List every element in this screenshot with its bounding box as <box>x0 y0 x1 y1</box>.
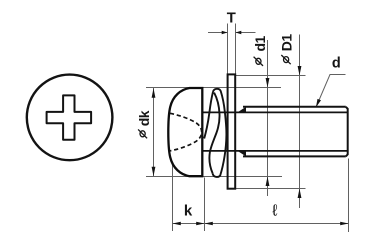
arrow T left <box>222 31 228 34</box>
screw tip end face with chamfer <box>346 107 348 157</box>
screw head side view outline <box>168 88 202 176</box>
thread crest line top <box>243 106 346 108</box>
svg-text:dk: dk <box>136 110 152 126</box>
dimension line T left tail <box>208 32 228 34</box>
extension line T right <box>235 24 237 75</box>
spring washer outline: upper-left edge, top cap, right edge, bottom cap <box>204 89 226 177</box>
svg-text:D1: D1 <box>279 34 295 52</box>
extension line D1 top <box>236 75 306 77</box>
arrow dk bottom <box>152 167 156 177</box>
arrow D1 top (pointing down at ext) <box>298 66 302 76</box>
arrow l right <box>340 222 348 226</box>
label phi dk (rotated) <box>136 110 152 138</box>
phillips cross recess <box>47 95 92 139</box>
label phi D1 (rotated) <box>279 34 295 65</box>
arrow T right <box>236 31 242 34</box>
hidden recess dashed lines <box>170 113 202 151</box>
arrow k right <box>196 222 204 226</box>
svg-text:T: T <box>227 10 236 26</box>
extension line d1 top <box>146 87 281 89</box>
arrow D1 bottom (pointing up at ext) <box>298 189 302 199</box>
arrow l left <box>205 222 213 226</box>
svg-text:ℓ: ℓ <box>272 203 277 220</box>
dimension line k <box>173 223 205 225</box>
extension line k left <box>172 163 174 231</box>
dimension line phi-d1 <box>267 40 269 196</box>
screw shank root lines (pass under washers) <box>202 111 347 113</box>
extension line T left <box>227 24 229 75</box>
thread runout wedge bottom <box>238 151 247 157</box>
extension line D1 bottom <box>236 188 306 190</box>
arrow k left <box>173 222 181 226</box>
arrow d1 top (pointing down at ext) <box>266 78 270 88</box>
dimension line phi-dk <box>153 88 155 177</box>
extension line l right <box>348 159 350 233</box>
svg-text:d: d <box>332 55 341 71</box>
flat washer <box>228 74 236 188</box>
leader d: horizontal + diagonal <box>317 75 346 107</box>
arrow dk top <box>152 88 156 98</box>
arrow d leader <box>316 99 321 108</box>
spring washer coil S-edge <box>209 93 219 174</box>
svg-text:d1: d1 <box>252 35 268 51</box>
head front view: circle outline <box>27 75 113 161</box>
svg-text:k: k <box>184 202 193 219</box>
thread crest line bottom <box>243 155 346 157</box>
thread runout wedge top <box>238 107 247 113</box>
extension line d1 bottom <box>146 176 282 178</box>
extension line k/l shared <box>204 178 206 232</box>
dimension line T right tail <box>236 32 256 34</box>
dimension line l <box>205 223 349 225</box>
dimension line phi-D1 <box>299 35 301 209</box>
arrow d1 bottom (pointing up at ext) <box>266 177 270 187</box>
label phi d1 (rotated) <box>252 35 268 65</box>
